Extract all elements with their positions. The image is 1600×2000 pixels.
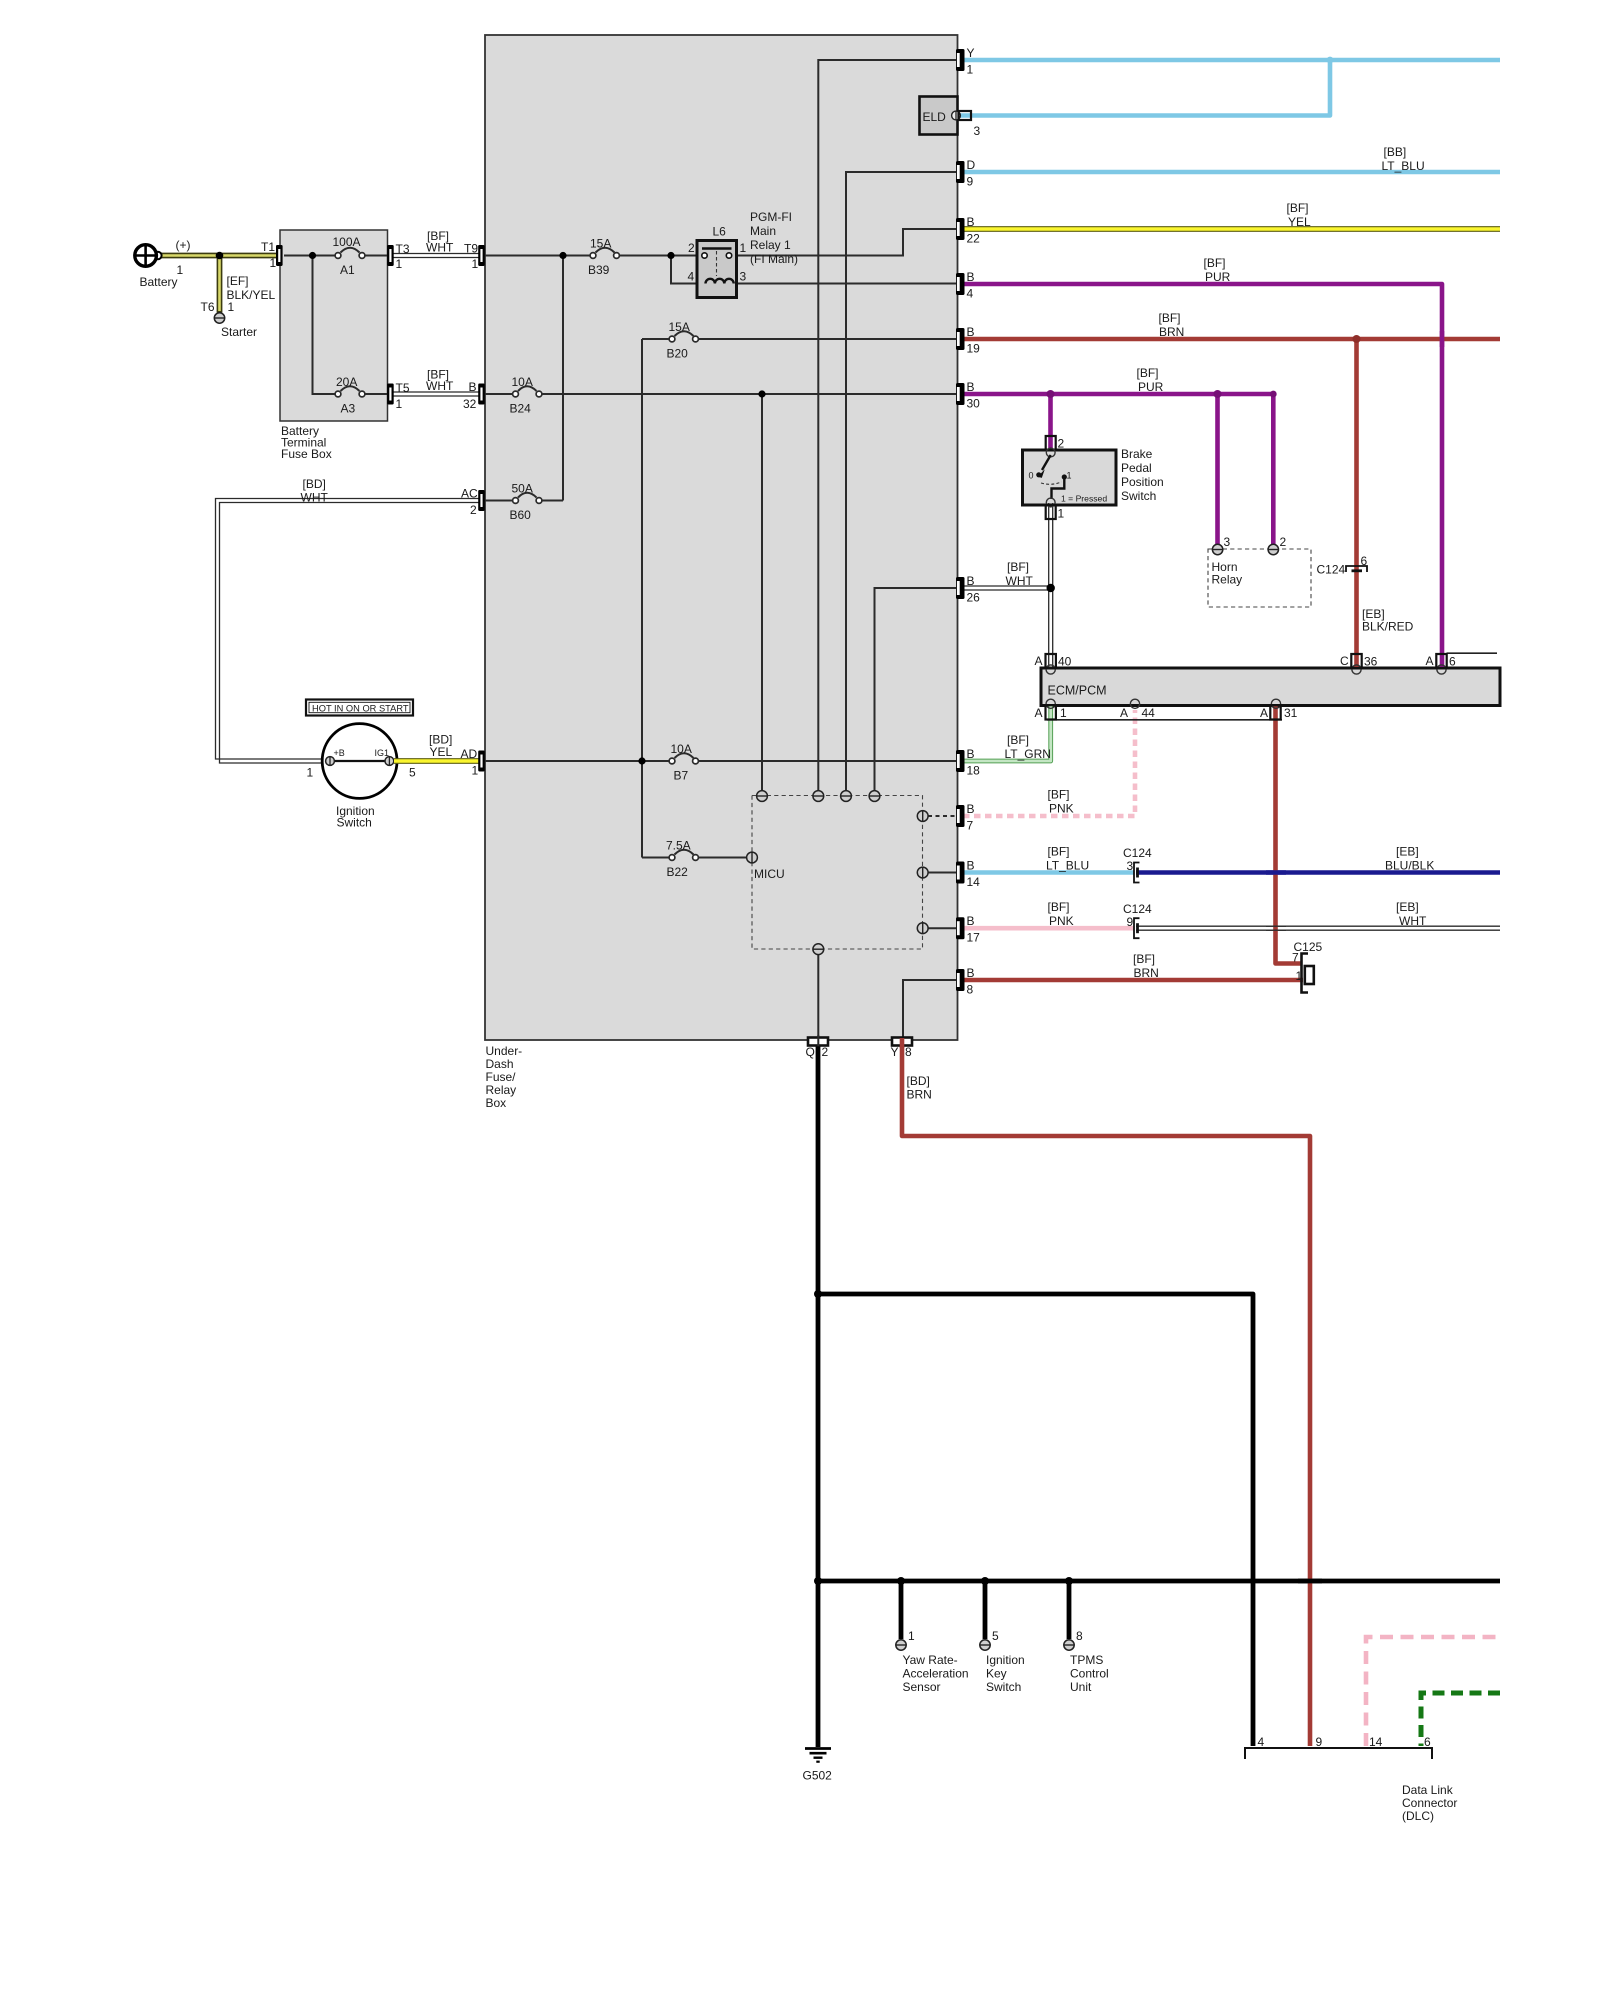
pin B14 — [956, 862, 965, 884]
svg-text:AD: AD — [461, 747, 478, 761]
brake switch contact 0 — [1036, 472, 1041, 477]
svg-text:1: 1 — [472, 764, 479, 778]
fuse A3 20A — [335, 386, 365, 397]
svg-text:[BB]: [BB] — [1384, 145, 1407, 159]
svg-text:B: B — [967, 747, 975, 761]
svg-text:(DLC): (DLC) — [1402, 1809, 1434, 1823]
svg-text:[BD]: [BD] — [907, 1074, 930, 1088]
svg-text:Pedal: Pedal — [1121, 461, 1152, 475]
svg-text:Main: Main — [750, 224, 776, 238]
wire B26 WHT — [963, 586, 1053, 590]
svg-text:+B: +B — [334, 748, 345, 758]
svg-text:8: 8 — [1076, 1629, 1083, 1643]
yaw rate sensor terminal — [896, 1640, 906, 1650]
node PUR corner — [1270, 391, 1277, 398]
svg-text:LT_GRN: LT_GRN — [1005, 747, 1051, 761]
svg-text:4: 4 — [688, 270, 695, 284]
svg-text:Control: Control — [1070, 1667, 1109, 1681]
svg-text:[BF]: [BF] — [1007, 733, 1029, 747]
wire DLC6 GRN dashed — [1421, 1693, 1500, 1746]
svg-text:PGM-FI: PGM-FI — [750, 210, 792, 224]
svg-text:1: 1 — [177, 263, 184, 277]
svg-text:HOT IN ON OR START: HOT IN ON OR START — [312, 704, 409, 714]
svg-text:3: 3 — [740, 270, 747, 284]
ECM/PCM box — [1041, 668, 1500, 706]
svg-text:WHT: WHT — [1006, 574, 1034, 588]
svg-text:Q: Q — [806, 1045, 815, 1059]
svg-text:[BF]: [BF] — [1133, 952, 1155, 966]
wire T5 to B32 WHT — [392, 392, 479, 396]
pin B19 — [956, 328, 965, 350]
svg-text:B: B — [967, 380, 975, 394]
wire drop TPMS — [1067, 1581, 1072, 1639]
pin T3 — [387, 245, 394, 266]
svg-text:7.5A: 7.5A — [666, 839, 691, 853]
fuse B60 50A — [513, 493, 542, 504]
svg-text:YEL: YEL — [1288, 215, 1311, 229]
svg-text:22: 22 — [967, 232, 981, 246]
svg-text:Ignition: Ignition — [986, 1653, 1025, 1667]
pin B8 — [956, 969, 965, 991]
connector C124-6 — [1346, 566, 1367, 572]
node ground junction 1 — [814, 1290, 822, 1298]
svg-text:IG1: IG1 — [375, 748, 390, 758]
wire battery box A3 branch — [313, 256, 393, 395]
wire D9 pin internal to MICU — [846, 172, 956, 791]
DLC connector bracket — [1245, 1748, 1432, 1759]
wire crossing purple over brown at B4/A6 drop — [1440, 331, 1445, 347]
relay L6 coil — [706, 279, 734, 284]
wire drop yaw sensor — [899, 1581, 904, 1639]
svg-text:T1: T1 — [261, 240, 275, 254]
svg-text:A: A — [1426, 654, 1434, 668]
wire T9 to relay L6 pin2 — [485, 255, 697, 257]
wire B17 PNK — [963, 926, 1134, 931]
svg-text:1: 1 — [740, 241, 747, 255]
wire AC row to fuse B60 — [485, 500, 563, 502]
wire crossing black over brown at ground bus — [1298, 1579, 1322, 1584]
svg-text:TPMS: TPMS — [1070, 1653, 1103, 1667]
svg-text:Dash: Dash — [486, 1057, 514, 1071]
svg-text:Position: Position — [1121, 475, 1164, 489]
svg-text:44: 44 — [1142, 706, 1156, 720]
wire ELD3 LT_BLU — [960, 62, 1330, 116]
svg-text:2: 2 — [470, 503, 477, 517]
svg-text:8: 8 — [967, 983, 974, 997]
wire PUR branch to brake switch pin2 — [1048, 394, 1053, 448]
svg-text:B: B — [967, 914, 975, 928]
fuse B22 7.5A — [669, 850, 698, 861]
wire Y1 LT_BLU — [963, 58, 1500, 63]
svg-text:T3: T3 — [396, 242, 410, 256]
svg-text:[EB]: [EB] — [1396, 900, 1419, 914]
svg-text:18: 18 — [967, 764, 981, 778]
svg-text:[BF]: [BF] — [1204, 256, 1226, 270]
svg-text:26: 26 — [967, 591, 981, 605]
svg-text:Relay: Relay — [486, 1083, 517, 1097]
wire MICU to B17 pin — [928, 927, 956, 929]
brake switch terminal top — [1046, 448, 1055, 457]
svg-text:PNK: PNK — [1049, 802, 1074, 816]
svg-text:(FI Main): (FI Main) — [750, 252, 798, 266]
brake switch pin2 rect — [1046, 436, 1056, 450]
wire battery BLK/YEL — [160, 256, 277, 313]
wire PUR branch to horn relay 3 — [1215, 394, 1220, 544]
wire B14 LT_BLU — [963, 870, 1134, 875]
pin B30 — [956, 383, 965, 405]
wire vertical x762 to MICU — [761, 394, 763, 791]
svg-text:LT_BLU: LT_BLU — [1382, 159, 1425, 173]
svg-text:[BF]: [BF] — [1287, 201, 1309, 215]
MICU dashed box — [752, 796, 923, 950]
node ground junction 3 — [897, 1577, 905, 1585]
pin B22 — [956, 218, 965, 240]
svg-text:3: 3 — [974, 124, 981, 138]
svg-text:50A: 50A — [512, 482, 533, 496]
pin AD1 — [478, 751, 485, 772]
pin B26 — [956, 577, 965, 599]
svg-text:17: 17 — [967, 931, 981, 945]
svg-text:BLK/RED: BLK/RED — [1362, 620, 1414, 634]
pin B17 — [956, 917, 965, 939]
wire MICU to B7 pin dashed — [928, 815, 956, 817]
svg-text:YEL: YEL — [430, 745, 453, 759]
wire relay L6 pin1 to B22 pin — [737, 229, 957, 256]
ECM terminal circle A1 — [1046, 699, 1055, 708]
svg-text:Battery: Battery — [140, 275, 178, 289]
brake switch terminal bottom — [1046, 498, 1055, 507]
svg-text:3: 3 — [1224, 535, 1231, 549]
wire Y8 BRN to DLC9 — [902, 1046, 1310, 1746]
svg-text:1: 1 — [472, 257, 479, 271]
ECM bracket line bottom A-connector — [1047, 719, 1282, 721]
pin Y8 — [892, 1038, 912, 1046]
TPMS terminal — [1064, 1640, 1074, 1650]
svg-text:6: 6 — [1449, 655, 1456, 669]
wire crossing white over brown at A31 drop — [1266, 926, 1286, 930]
node junction x563 — [559, 252, 566, 259]
ignition switch circle — [322, 724, 397, 799]
fuse B24 10A — [513, 386, 542, 397]
svg-text:BRN: BRN — [1159, 325, 1184, 339]
node ground junction 4 — [981, 1577, 989, 1585]
node PUR junction 1 — [1047, 390, 1055, 398]
MICU terminal right 2 — [917, 867, 928, 878]
wire Y1 pin internal to MICU — [818, 60, 956, 791]
node junction B24 row — [758, 390, 765, 397]
svg-text:WHT: WHT — [301, 491, 329, 505]
wire B30 PUR — [963, 394, 1273, 544]
svg-text:[BD]: [BD] — [303, 477, 326, 491]
svg-text:WHT: WHT — [426, 379, 454, 393]
svg-text:3: 3 — [1127, 859, 1134, 873]
wire B18 LT_GRN — [963, 706, 1051, 761]
svg-text:G502: G502 — [803, 1769, 833, 1783]
svg-text:A1: A1 — [340, 263, 355, 277]
wire MICU to B14 pin — [928, 872, 956, 874]
svg-text:B: B — [967, 574, 975, 588]
svg-text:19: 19 — [967, 342, 981, 356]
ECM terminal circle A40 — [1046, 665, 1055, 674]
wire fuse B22 row to MICU — [642, 857, 746, 859]
svg-text:PNK: PNK — [1049, 914, 1074, 928]
svg-text:10A: 10A — [671, 742, 692, 756]
svg-text:0: 0 — [1029, 471, 1034, 481]
wire battery box T1 row — [284, 255, 392, 257]
svg-text:1: 1 — [1058, 507, 1065, 521]
ECM terminal circle A31 — [1271, 699, 1280, 708]
wire D9 LT_BLU — [963, 170, 1500, 175]
svg-text:B22: B22 — [667, 865, 689, 879]
fuse B39 15A — [590, 248, 619, 259]
svg-text:[EF]: [EF] — [227, 274, 249, 288]
svg-text:LT_BLU: LT_BLU — [1046, 859, 1089, 873]
wire B19 BRN — [963, 337, 1500, 342]
svg-text:7: 7 — [967, 819, 974, 833]
wire A31 BRN to C125 — [1276, 706, 1302, 964]
fuse B7 10A — [669, 753, 698, 764]
svg-text:B: B — [967, 215, 975, 229]
pin T5 — [387, 384, 394, 405]
battery terminal fuse box — [280, 230, 388, 421]
svg-text:A: A — [1035, 654, 1043, 668]
svg-text:1: 1 — [307, 766, 314, 780]
svg-text:31: 31 — [1284, 706, 1298, 720]
wire C124-3 BLU/BLK — [1136, 870, 1500, 875]
MICU terminal top 1 — [757, 791, 768, 802]
svg-text:10A: 10A — [512, 375, 533, 389]
ECM terminal circle C36 — [1352, 665, 1361, 674]
svg-text:6: 6 — [1424, 1735, 1431, 1749]
svg-text:Brake: Brake — [1121, 447, 1153, 461]
svg-text:14: 14 — [967, 875, 981, 889]
wire IG1 to AD YEL — [394, 758, 481, 764]
svg-text:Yaw Rate-: Yaw Rate- — [903, 1653, 958, 1667]
svg-text:5: 5 — [409, 766, 416, 780]
svg-text:WHT: WHT — [426, 241, 454, 255]
svg-text:1: 1 — [228, 300, 235, 314]
pin Q2 — [808, 1038, 828, 1046]
MICU terminal top 4 — [869, 791, 880, 802]
wire crossing navy over brown at A31 drop — [1266, 870, 1286, 875]
MICU terminal bottom — [813, 944, 824, 955]
pin B4 — [956, 273, 965, 295]
ECM pin rect A31 — [1270, 705, 1280, 719]
svg-text:PUR: PUR — [1138, 380, 1164, 394]
brake switch pin1 rect — [1046, 505, 1056, 519]
wire T3 to T9 WHT — [392, 254, 480, 258]
svg-text:T6: T6 — [201, 300, 215, 314]
svg-text:1: 1 — [396, 257, 403, 271]
MICU terminal top 2 — [813, 791, 824, 802]
svg-text:Data Link: Data Link — [1402, 1783, 1454, 1797]
brake switch contact 1 — [1062, 474, 1067, 479]
svg-text:[EB]: [EB] — [1396, 845, 1419, 859]
svg-text:9: 9 — [1316, 1735, 1323, 1749]
wire C124-9 WHT — [1136, 926, 1500, 930]
horn relay terminal 2 — [1268, 544, 1278, 554]
svg-text:B: B — [967, 270, 975, 284]
wire AC to ignition +B WHT — [216, 499, 482, 764]
svg-text:A: A — [1035, 706, 1043, 720]
svg-text:Under-: Under- — [486, 1044, 523, 1058]
svg-text:Acceleration: Acceleration — [903, 1667, 969, 1681]
battery symbol — [134, 244, 162, 268]
svg-text:C124: C124 — [1123, 846, 1152, 860]
svg-text:Key: Key — [986, 1667, 1007, 1681]
connector C125 — [1302, 954, 1314, 993]
ECM pin rect C36 — [1351, 654, 1361, 668]
svg-text:Box: Box — [486, 1096, 507, 1110]
svg-text:Relay: Relay — [1212, 573, 1243, 587]
wire B8 pin internal to Y8 pin — [903, 980, 956, 1037]
ECM pin rect A40 — [1046, 654, 1056, 668]
svg-text:7: 7 — [1292, 951, 1299, 965]
svg-text:BRN: BRN — [907, 1088, 932, 1102]
svg-text:[BF]: [BF] — [1007, 560, 1029, 574]
svg-text:B20: B20 — [667, 347, 689, 361]
starter terminal — [214, 313, 224, 323]
wire bus x563 — [562, 256, 564, 501]
svg-text:(+): (+) — [176, 238, 191, 252]
svg-text:B24: B24 — [510, 402, 532, 416]
fuse A1 100A — [335, 248, 365, 259]
MICU terminal top 3 — [841, 791, 852, 802]
svg-text:6: 6 — [1361, 554, 1368, 568]
svg-text:15A: 15A — [590, 237, 611, 251]
svg-text:[BF]: [BF] — [1048, 845, 1070, 859]
pin Y1 — [956, 49, 965, 71]
svg-text:C124: C124 — [1123, 902, 1152, 916]
node junction AD row — [638, 757, 645, 764]
brake switch wire to pin1 — [1052, 478, 1065, 499]
node PUR junction 2 — [1214, 390, 1222, 398]
svg-text:ECM/PCM: ECM/PCM — [1048, 684, 1107, 698]
connector C124-9 — [1134, 918, 1140, 938]
svg-text:4: 4 — [1258, 1735, 1265, 1749]
svg-text:40: 40 — [1058, 655, 1072, 669]
wire relay L6 pin3 to B4 pin — [737, 283, 957, 285]
brake switch dashed arc — [1041, 482, 1062, 484]
brake switch arm — [1038, 455, 1051, 478]
ELD box — [920, 97, 958, 135]
wire MICU to Q2 pin — [817, 955, 819, 1038]
svg-text:Starter: Starter — [221, 325, 257, 339]
svg-text:Switch: Switch — [337, 816, 372, 830]
ignition terminal +B — [326, 757, 335, 766]
svg-text:9: 9 — [1127, 915, 1134, 929]
ground G502 — [805, 1749, 831, 1762]
wire branch to relay L6 pin4 — [671, 256, 697, 284]
svg-text:Switch: Switch — [1121, 489, 1156, 503]
node battery junction — [216, 252, 224, 260]
svg-text:8: 8 — [905, 1045, 912, 1059]
MICU terminal right 3 — [917, 923, 928, 934]
wire bus x642 — [641, 339, 643, 858]
ignition key switch terminal — [980, 1640, 990, 1650]
svg-text:B: B — [967, 802, 975, 816]
svg-text:Relay 1: Relay 1 — [750, 238, 791, 252]
svg-text:Fuse Box: Fuse Box — [281, 447, 332, 461]
svg-text:1: 1 — [967, 63, 974, 77]
svg-text:C124: C124 — [1317, 563, 1346, 577]
pin B7 — [956, 805, 965, 827]
svg-text:2: 2 — [688, 241, 695, 255]
pin B18 — [956, 750, 965, 772]
wire B22 YEL — [963, 226, 1500, 232]
ELD pin 3 rect — [959, 111, 972, 120]
svg-text:32: 32 — [463, 397, 477, 411]
svg-text:2: 2 — [1280, 535, 1287, 549]
svg-text:20A: 20A — [336, 375, 357, 389]
wire C124-6 BLK/RED vertical — [1354, 339, 1359, 668]
svg-text:B39: B39 — [588, 263, 610, 277]
svg-text:Y: Y — [891, 1045, 899, 1059]
svg-text:Sensor: Sensor — [903, 1680, 941, 1694]
node BRN junction — [1353, 335, 1361, 343]
ELD terminal — [952, 111, 961, 120]
svg-text:AC: AC — [461, 487, 478, 501]
HOT IN ON OR START box — [306, 700, 413, 716]
wire B8 BRN — [963, 978, 1303, 983]
node ground junction 5 — [1065, 1577, 1073, 1585]
svg-text:B: B — [967, 859, 975, 873]
node junction battery box — [309, 252, 316, 259]
svg-text:1: 1 — [908, 1629, 915, 1643]
wire DLC14 PNK dashed — [1366, 1637, 1500, 1746]
svg-text:T5: T5 — [396, 381, 410, 395]
horn relay dashed box — [1208, 549, 1311, 607]
relay L6 actuator dashed — [716, 251, 718, 276]
svg-text:ELD: ELD — [923, 110, 947, 124]
svg-text:Y: Y — [967, 46, 975, 60]
node ground junction 2 — [814, 1577, 822, 1585]
svg-text:C: C — [1340, 654, 1349, 668]
fuse B20 15A — [669, 331, 698, 342]
svg-text:1: 1 — [1296, 969, 1303, 983]
under-dash fuse/relay box — [485, 35, 958, 1040]
pin B32 — [478, 384, 485, 405]
wire drop ignition key switch — [983, 1581, 988, 1639]
node junction relay feed — [667, 252, 674, 259]
svg-text:WHT: WHT — [1399, 914, 1427, 928]
MICU terminal right 1 — [917, 811, 928, 822]
svg-text:BRN: BRN — [1134, 966, 1159, 980]
svg-text:2: 2 — [822, 1045, 829, 1059]
svg-text:B: B — [967, 966, 975, 980]
svg-text:D: D — [967, 158, 976, 172]
svg-text:[BF]: [BF] — [1048, 788, 1070, 802]
ignition terminal IG1 — [385, 757, 394, 766]
svg-text:B60: B60 — [510, 508, 532, 522]
wire B7 PNK dashed — [963, 710, 1135, 816]
wire through Y8 pin slot — [900, 1038, 905, 1048]
svg-text:[BF]: [BF] — [1048, 900, 1070, 914]
wire AD row to B18 pin — [485, 760, 956, 762]
relay L6 contact terminals — [702, 253, 707, 258]
svg-text:Switch: Switch — [986, 1680, 1021, 1694]
svg-text:2: 2 — [1058, 437, 1065, 451]
wire ground bus horizontal — [818, 1579, 1500, 1584]
svg-text:A3: A3 — [341, 402, 356, 416]
node lt-blu junction — [1327, 57, 1334, 64]
svg-text:5: 5 — [992, 1629, 999, 1643]
ECM bracket line top A-connector — [1447, 652, 1498, 654]
svg-text:T9: T9 — [464, 242, 478, 256]
ECM pin rect A1 — [1046, 705, 1056, 719]
svg-text:1: 1 — [1067, 471, 1072, 481]
svg-text:36: 36 — [1364, 655, 1378, 669]
